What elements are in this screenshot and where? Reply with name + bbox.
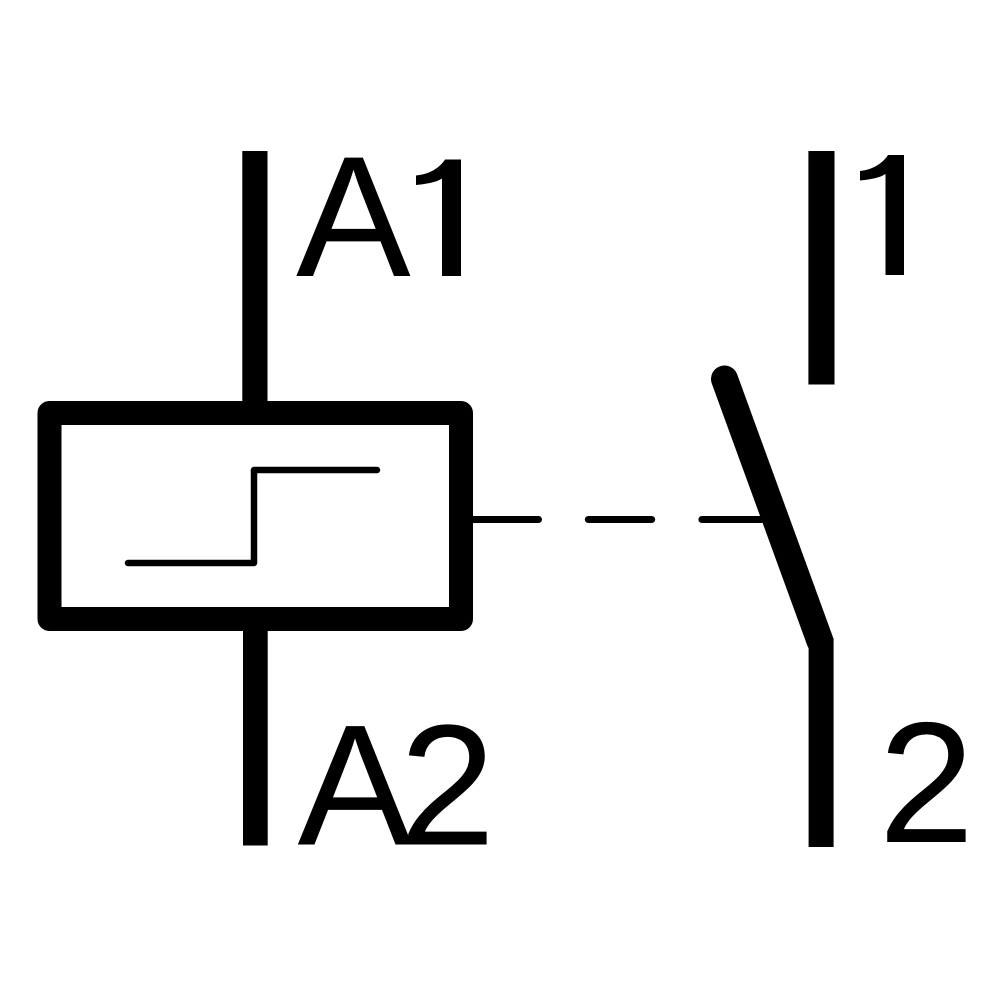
wire A1 terminal (top-left vertical) xyxy=(242,151,267,413)
svg-text:2: 2 xyxy=(879,687,975,879)
wire terminal 2 (bottom-right vertical) xyxy=(809,638,834,847)
label 1 xyxy=(860,155,904,275)
actuation link dashed line xyxy=(473,516,539,523)
coil remanence step symbol xyxy=(128,470,377,563)
label A2 xyxy=(298,690,496,882)
wire A2 terminal (bottom-left vertical) xyxy=(243,619,268,846)
svg-text:A: A xyxy=(298,690,413,882)
coil K1 (rectangle body) xyxy=(50,413,462,619)
svg-text:2: 2 xyxy=(400,690,496,882)
svg-text:A: A xyxy=(296,121,411,313)
label A1 xyxy=(296,121,461,313)
dash segment 2 xyxy=(588,516,651,523)
dash segment 3 xyxy=(702,516,761,523)
contact blade (NO switch arm) xyxy=(725,379,821,641)
wire terminal 1 (top-right vertical) xyxy=(808,151,834,385)
